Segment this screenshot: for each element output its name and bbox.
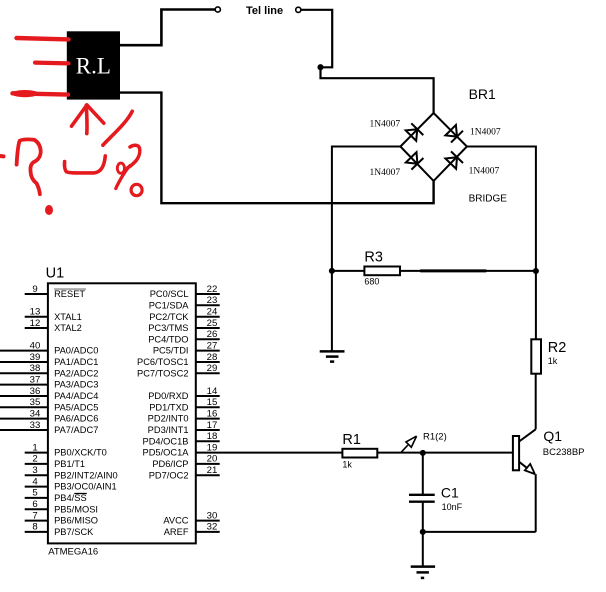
label 1N4007 lower-left [370, 168, 401, 178]
capacitor C1 plates [409, 495, 435, 502]
U1 pin 25 (PC3/TMS) right stub, number and label [148, 318, 219, 333]
svg-text:C1: C1 [441, 485, 459, 501]
U1 pin 23 (PC1/SDA) right stub, number and label [149, 295, 220, 310]
wire bridge left vertex to left rail [332, 147, 401, 271]
U1 pin 1 (PB0/XCK/T0) left stub, number and label [25, 442, 107, 457]
U1 pin 2 (PB1/T1) left stub, number and label [25, 454, 85, 469]
svg-text:PA5/ADC5: PA5/ADC5 [54, 402, 98, 412]
svg-text:21: 21 [207, 465, 218, 476]
U1 pin 9 (RESET) left stub, number and label [25, 284, 86, 299]
svg-text:24: 24 [207, 307, 218, 318]
svg-text:5: 5 [32, 488, 37, 499]
Q1 emitter lead with arrow [519, 462, 535, 474]
IC U1 body [48, 283, 196, 543]
svg-text:3: 3 [32, 465, 37, 476]
svg-text:30: 30 [207, 510, 218, 521]
red annotation stroke bottom (relay lead) [12, 90, 69, 97]
svg-text:PB4/SS: PB4/SS [54, 493, 87, 503]
svg-text:AVCC: AVCC [163, 516, 188, 526]
relay R.L (black box) [67, 31, 120, 99]
U1 pin 19 (PD5/OC1A) right stub, number and label [143, 442, 218, 457]
probe arrow R1(2) [401, 436, 416, 452]
svg-text:35: 35 [30, 397, 41, 408]
wire terminal 2 down to junction [301, 10, 332, 68]
label C1 [441, 485, 459, 501]
label ATMEGA16 [48, 546, 98, 557]
svg-text:BR1: BR1 [469, 86, 496, 102]
U1 pin 17 (PD3/INT1) right stub, number and label [148, 420, 220, 435]
value 10nF [442, 502, 463, 512]
svg-text:25: 25 [207, 318, 218, 329]
svg-text:R3: R3 [364, 250, 383, 266]
red annotation tick at left edge [0, 154, 4, 158]
svg-text:PA4/ADC4: PA4/ADC4 [54, 391, 98, 401]
red annotation diagonal stroke [103, 111, 132, 145]
svg-text:PB5/MOSI: PB5/MOSI [54, 504, 98, 514]
U1 pin 16 (PD2/INT0) right stub, number and label [148, 408, 220, 423]
svg-text:4: 4 [32, 476, 38, 487]
svg-text:18: 18 [207, 431, 218, 442]
junction node R1/C1/Q1 base [420, 450, 426, 456]
svg-text:6: 6 [32, 499, 37, 510]
U1 pin 37 (PA3/ADC3) left stub, number and label [0, 374, 98, 389]
svg-text:PC2/TCK: PC2/TCK [149, 312, 189, 322]
svg-text:PA6/ADC6: PA6/ADC6 [54, 414, 98, 424]
svg-text:1: 1 [32, 442, 37, 453]
svg-text:34: 34 [30, 408, 41, 419]
svg-text:PB6/MISO: PB6/MISO [54, 516, 98, 526]
U1 pin 22 (PC0/SCL) right stub, number and label [150, 284, 220, 299]
U1 pin 6 (PB5/MOSI) left stub, number and label [25, 499, 98, 514]
svg-text:40: 40 [30, 340, 41, 351]
diode D3 1N4007 (lower-left arm) [406, 152, 424, 169]
U1 pin 18 (PD4/OC1B) right stub, number and label [143, 431, 220, 446]
U1 pin 3 (PB2/INT2/AIN0) left stub, number and label [25, 465, 118, 480]
svg-text:PD2/INT0: PD2/INT0 [148, 414, 189, 424]
U1 pin 28 (PC6/TOSC1) right stub, number and label [137, 352, 220, 367]
value BC238BP [543, 447, 585, 458]
svg-text:PC4/TDO: PC4/TDO [148, 334, 188, 344]
node Tel line terminal 1 [215, 7, 220, 12]
U1 pin 35 (PA5/ADC5) left stub, number and label [0, 397, 98, 412]
node Tel line terminal 2 [296, 7, 301, 12]
svg-text:PD1/TXD: PD1/TXD [149, 402, 189, 412]
label 1N4007 upper-left [370, 120, 401, 130]
svg-text:R1: R1 [342, 432, 361, 448]
svg-text:PD6/ICP: PD6/ICP [152, 459, 188, 469]
svg-text:PB7/SCK: PB7/SCK [54, 527, 94, 537]
svg-text:26: 26 [207, 329, 218, 340]
svg-text:BC238BP: BC238BP [543, 447, 585, 458]
svg-text:PC1/SDA: PC1/SDA [149, 300, 190, 310]
wire bottom junction to emitter rail [423, 531, 536, 533]
svg-text:AREF: AREF [164, 527, 189, 537]
svg-text:PC0/SCL: PC0/SCL [150, 289, 189, 299]
svg-text:BRIDGE: BRIDGE [469, 194, 508, 205]
svg-text:1N4007: 1N4007 [470, 128, 501, 138]
svg-text:PD5/OC1A: PD5/OC1A [143, 448, 190, 458]
Q1 collector lead [519, 429, 536, 441]
junction node left of R3 [329, 268, 335, 274]
U1 pin 20 (PD6/ICP) right stub, number and label [152, 454, 219, 469]
svg-text:28: 28 [207, 352, 218, 363]
wire junction to R3 [332, 270, 365, 272]
red annotation question mark scribble [17, 139, 41, 194]
svg-text:PA7/ADC7: PA7/ADC7 [54, 425, 98, 435]
wire C1 to bottom junction [422, 502, 424, 532]
red annotation small circle scribble [131, 184, 142, 195]
svg-text:7: 7 [32, 510, 37, 521]
svg-text:PC3/TMS: PC3/TMS [148, 323, 188, 333]
svg-text:R2: R2 [548, 340, 567, 356]
U1 pin 14 (PD0/RXD) right stub, number and label [148, 386, 220, 401]
label BRIDGE [469, 194, 508, 205]
U1 pin 36 (PA4/ADC4) left stub, number and label [0, 386, 98, 401]
U1 pin 27 (PC5/TDI) right stub, number and label [153, 340, 220, 355]
svg-text:PC7/TOSC2: PC7/TOSC2 [137, 368, 189, 378]
U1 pin 4 (PB3/OC0/AIN1) left stub, number and label [25, 476, 117, 491]
U1 pin 39 (PA1/ADC1) left stub, number and label [0, 352, 98, 367]
red annotation waw/qaf curl scribble [116, 145, 140, 188]
svg-text:20: 20 [207, 454, 218, 465]
U1 pin 40 (PA0/ADC0) left stub, number and label [0, 340, 98, 355]
svg-text:XTAL1: XTAL1 [54, 312, 82, 322]
red annotation question mark dot [45, 205, 53, 215]
svg-text:1N4007: 1N4007 [469, 167, 500, 177]
svg-text:PD3/INT1: PD3/INT1 [148, 425, 189, 435]
svg-text:PC6/TOSC1: PC6/TOSC1 [137, 357, 189, 367]
svg-text:PA3/ADC3: PA3/ADC3 [54, 380, 98, 390]
svg-text:36: 36 [30, 386, 41, 397]
label R2 [548, 340, 567, 356]
svg-text:8: 8 [32, 522, 37, 533]
wire relay bottom pin to bridge bottom vertex [120, 93, 434, 204]
svg-text:PB1/T1: PB1/T1 [54, 459, 85, 469]
diode D2 1N4007 (upper-right arm) [445, 125, 463, 143]
U1 pin 12 (XTAL2) left stub, number and label [25, 318, 82, 333]
label U1 [46, 265, 65, 281]
svg-text:PB2/INT2/AIN0: PB2/INT2/AIN0 [54, 470, 118, 480]
svg-text:17: 17 [207, 420, 218, 431]
bridge rectifier BR1 diamond outline [400, 113, 467, 181]
junction node right of R3 [533, 268, 539, 274]
red annotation arrow pointing up at relay [72, 105, 104, 134]
svg-text:16: 16 [207, 408, 218, 419]
svg-text:32: 32 [207, 522, 218, 533]
label Q1 [543, 428, 562, 444]
svg-text:1N4007: 1N4007 [370, 168, 401, 178]
wire R3 to right junction [400, 270, 536, 272]
U1 pin 34 (PA6/ADC6) left stub, number and label [0, 408, 98, 423]
svg-text:ATMEGA16: ATMEGA16 [48, 546, 98, 557]
U1 pin 26 (PC4/TDO) right stub, number and label [148, 329, 219, 344]
U1 pin 24 (PC2/TCK) right stub, number and label [149, 307, 219, 322]
transistor Q1 base bar [513, 436, 519, 470]
label BR1 [469, 86, 496, 102]
svg-text:PA1/ADC1: PA1/ADC1 [54, 357, 98, 367]
svg-text:PB3/OC0/AIN1: PB3/OC0/AIN1 [54, 482, 117, 492]
U1 pin 32 (AREF) right stub, number and label [164, 522, 220, 537]
label 1N4007 upper-right [470, 128, 501, 138]
value 1k (R2) [548, 356, 558, 366]
wire Q1 emitter down [535, 474, 537, 532]
wire U1 pin 19 to R1 [196, 452, 343, 454]
label R3 [364, 250, 383, 266]
U1 pin 5 (PB4/SS) left stub, number and label [25, 488, 87, 503]
wire junction to bridge top vertex [321, 67, 434, 113]
wire bottom junction down to ground [422, 532, 424, 567]
svg-text:PD0/RXD: PD0/RXD [148, 391, 189, 401]
label R1 [342, 432, 361, 448]
resistor R1 body [342, 449, 377, 458]
wire junction down to C1 [422, 453, 424, 494]
svg-text:1k: 1k [342, 460, 352, 470]
value 680 [364, 277, 379, 287]
thick wire segment on R3 net [420, 269, 486, 272]
junction node C1/emitter/ground [420, 529, 426, 535]
red annotation scribble (kaf shape) [65, 156, 106, 173]
svg-text:1k: 1k [548, 356, 558, 366]
svg-text:10nF: 10nF [442, 502, 463, 512]
svg-text:PC5/TDI: PC5/TDI [153, 346, 189, 356]
svg-text:2: 2 [32, 454, 37, 465]
wire left rail down to ground [331, 271, 333, 351]
label R1(2) [423, 431, 447, 442]
svg-text:37: 37 [30, 374, 41, 385]
value 1k (R1) [342, 460, 352, 470]
ground symbol bottom [411, 567, 435, 578]
U1 pin 13 (XTAL1) left stub, number and label [25, 307, 82, 322]
label Tel line [246, 5, 283, 17]
resistor R2 body [531, 339, 541, 373]
svg-text:PD7/OC2: PD7/OC2 [149, 470, 189, 480]
diode D4 1N4007 (lower-right arm) [445, 151, 463, 168]
svg-text:XTAL2: XTAL2 [54, 323, 82, 333]
svg-text:RESET: RESET [54, 289, 85, 299]
wire relay top pin to Tel line terminal [120, 10, 215, 46]
svg-text:U1: U1 [46, 265, 65, 281]
svg-text:PA0/ADC0: PA0/ADC0 [54, 346, 98, 356]
wire R2 to Q1 collector [535, 374, 537, 430]
red annotation stroke top (relay lead) [17, 38, 69, 39]
wire right junction down to R2 [535, 271, 537, 339]
svg-text:Q1: Q1 [543, 428, 562, 444]
resistor R3 body [364, 267, 400, 276]
red annotation stroke middle (relay lead) [35, 60, 69, 65]
U1 pin 29 (PC7/TOSC2) right stub, number and label [137, 363, 220, 378]
svg-text:Tel line: Tel line [246, 5, 283, 17]
svg-text:PD4/OC1B: PD4/OC1B [143, 436, 189, 446]
svg-text:PA2/ADC2: PA2/ADC2 [54, 368, 98, 378]
svg-text:R.L: R.L [76, 54, 111, 79]
U1 pin 33 (PA7/ADC7) left stub, number and label [0, 420, 98, 435]
svg-text:15: 15 [207, 397, 218, 408]
svg-text:1N4007: 1N4007 [370, 120, 401, 130]
svg-text:12: 12 [30, 318, 41, 329]
svg-text:27: 27 [207, 340, 218, 351]
U1 pin 38 (PA2/ADC2) left stub, number and label [0, 363, 98, 378]
svg-text:13: 13 [30, 307, 41, 318]
U1 pin 21 (PD7/OC2) right stub, number and label [149, 465, 220, 480]
label 1N4007 lower-right [469, 167, 500, 177]
wire R1 to Q1 base [377, 452, 513, 454]
junction dot near tel line [317, 64, 323, 70]
svg-text:39: 39 [30, 352, 41, 363]
svg-text:14: 14 [207, 386, 218, 397]
svg-text:680: 680 [364, 277, 379, 287]
svg-text:22: 22 [207, 284, 218, 295]
svg-text:23: 23 [207, 295, 218, 306]
U1 pin 7 (PB6/MISO) left stub, number and label [25, 510, 98, 525]
svg-text:33: 33 [30, 420, 41, 431]
U1 pin 8 (PB7/SCK) left stub, number and label [25, 522, 94, 537]
ground symbol near R3 [320, 351, 345, 361]
diode D1 1N4007 (upper-left arm) [406, 123, 424, 141]
wire bridge right vertex to right rail [467, 147, 536, 272]
svg-text:R1(2): R1(2) [423, 431, 447, 442]
U1 pin 30 (AVCC) right stub, number and label [163, 510, 219, 525]
svg-text:29: 29 [207, 363, 218, 374]
svg-text:38: 38 [30, 363, 41, 374]
svg-text:PB0/XCK/T0: PB0/XCK/T0 [54, 448, 107, 458]
svg-text:9: 9 [32, 284, 37, 295]
U1 pin 15 (PD1/TXD) right stub, number and label [149, 397, 219, 412]
